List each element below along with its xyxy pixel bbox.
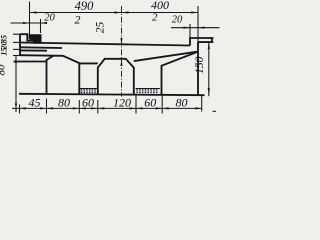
svg-text:20: 20: [172, 15, 183, 26]
svg-text:45: 45: [29, 96, 41, 110]
svg-text:490: 490: [75, 0, 95, 13]
svg-text:400: 400: [151, 0, 169, 12]
svg-text:80: 80: [176, 96, 188, 110]
svg-text:60: 60: [144, 96, 156, 110]
svg-text:80: 80: [0, 64, 8, 76]
svg-text:15: 15: [0, 48, 9, 56]
svg-text:150: 150: [194, 56, 206, 74]
svg-text:2: 2: [152, 12, 158, 24]
svg-text:120: 120: [113, 96, 131, 110]
svg-text:20: 20: [44, 12, 55, 23]
svg-text:2: 2: [75, 12, 81, 26]
svg-text:60: 60: [82, 96, 94, 110]
svg-text:80: 80: [58, 96, 70, 110]
svg-text:25: 25: [94, 22, 106, 34]
